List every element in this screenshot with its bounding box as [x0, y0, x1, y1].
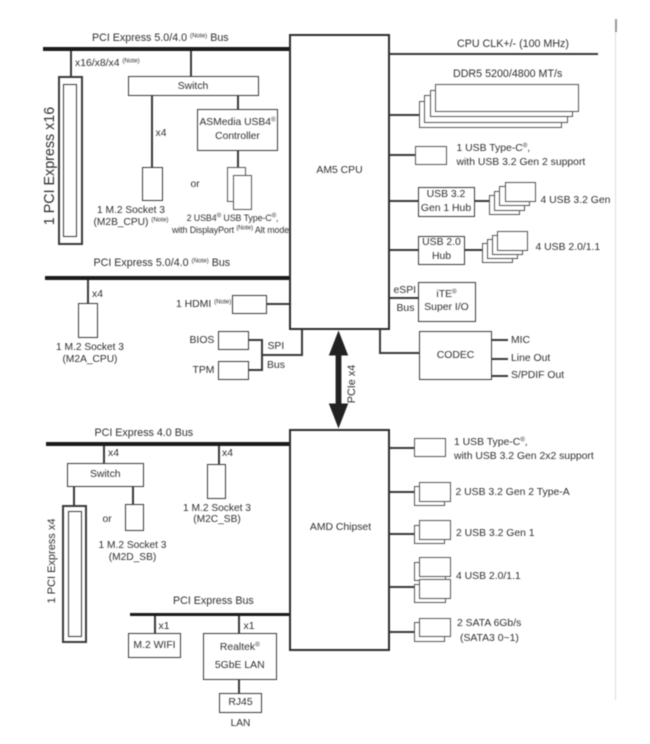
label PCI Express Bus: [173, 596, 254, 608]
caption USB4 alt mode line2: [172, 225, 289, 237]
USB 2.0 port pair B front: [419, 579, 451, 599]
wire HDMI to CPU: [267, 303, 290, 305]
label or (top): [191, 179, 200, 191]
DDR5 DIMM 4: [419, 101, 563, 129]
label LAN: [231, 718, 251, 730]
switch (top): [128, 76, 259, 96]
label eSPI: [394, 285, 417, 297]
wire bus to Realtek LAN: [238, 616, 240, 633]
M.2 socket M2A box: [78, 303, 98, 338]
label PCI Express 5.0/4.0 Bus (second): [94, 258, 231, 270]
USB 3.2 Gen 1 hub box: [418, 187, 475, 217]
PCI Express x16 slot outer: [58, 76, 83, 245]
HDMI port box: [232, 295, 267, 314]
PCI Express x4 slot inner: [68, 511, 82, 637]
label x4 (switch): [108, 448, 119, 460]
M.2 socket M2B box: [142, 167, 163, 201]
label 2 USB 3.2 Gen 2 Type-A: [456, 487, 570, 499]
wire CPU to USB type-C port: [390, 154, 415, 156]
wire bus to M.2 WIFI: [154, 616, 156, 633]
wire CODEC to S/PDIF Out: [492, 375, 508, 377]
iTE super I/O box: [418, 282, 476, 323]
wire CPU to CODEC horizontal: [379, 352, 420, 354]
CODEC box: [419, 331, 492, 381]
USB4 type-C port front: [233, 175, 253, 210]
PCI Express 4.0 bus bar: [46, 442, 289, 446]
ASMedia USB4 controller U-asm: [197, 109, 278, 152]
label PCIe x4 (rotated): [346, 365, 358, 403]
SATA port back: [414, 622, 445, 642]
wire switch to ASMedia controller: [237, 96, 239, 109]
page border dark tick: [615, 19, 617, 32]
caption 2 SATA 6Gb/s (SATA3 0~1): [457, 616, 521, 646]
DDR5 DIMM 2: [430, 90, 574, 118]
switch (bottom): [67, 463, 145, 488]
label CPU CLK+/- (100 MHz): [457, 39, 569, 51]
wire chipset to USB 2.0 ports: [390, 586, 414, 588]
label x4 (M2C): [222, 448, 233, 460]
USB 2.0 port pair A back: [414, 562, 446, 582]
wire chipset to USB 3.2 Gen 2 ports: [390, 491, 414, 493]
BIOS box: [218, 331, 249, 350]
wire switch to M.2 socket M2B: [151, 96, 153, 167]
label 1 PCI Express x4 (rotated): [46, 519, 58, 604]
USB 3.2 Gen 1 port front: [419, 520, 451, 540]
USB 2.0 hub box: [418, 236, 465, 265]
wire CPU to USB 3.2 hub: [390, 200, 418, 202]
label x1 (WIFI): [159, 621, 170, 633]
USB type-C port (CPU): [415, 146, 447, 165]
label x4: [156, 128, 167, 140]
USB type-C port (chipset): [414, 438, 446, 457]
wire CPU to DIMMs: [390, 114, 419, 116]
wire CODEC to Line Out: [492, 358, 508, 360]
wire switch to PCIe x4 slot: [73, 487, 75, 505]
wire CODEC to MIC: [492, 339, 508, 341]
caption 1 M.2 Socket 3 (M2B_CPU): [94, 205, 169, 228]
caption 1 M.2 Socket 3 (M2D_SB): [99, 540, 167, 563]
USB 2.0 port pair B back: [414, 584, 446, 604]
wire bus to PCIe x16 slot: [70, 51, 73, 76]
wire CPU to USB 2.0 hub: [390, 249, 418, 251]
CPU CLK wire: [390, 53, 598, 55]
SPI bus wire vertical to CPU bottom: [301, 330, 303, 356]
label Bus (eSPI): [397, 303, 415, 315]
USB 2.0 port 1: [497, 231, 528, 251]
label 1 HDMI: [176, 299, 231, 311]
TPM box: [218, 361, 249, 380]
Realtek 5GbE LAN box: [203, 633, 278, 680]
caption 2 USB4 USB Type-C with DisplayPort Alt mode: [187, 213, 279, 225]
label 4 USB 2.0/1.1 (bottom): [456, 571, 521, 583]
wire bus to M.2 socket M2C: [218, 446, 220, 464]
AMD chipset box: [289, 429, 390, 652]
SPI bracket vertical: [261, 339, 263, 371]
SATA port front: [419, 618, 451, 638]
USB 3.2 Gen 2 port front: [419, 482, 451, 502]
wire chipset to USB 3.2 Gen 1 ports: [390, 533, 414, 535]
label or (bottom): [103, 514, 112, 526]
caption 1 M.2 Socket 3 (M2A_CPU): [56, 342, 124, 365]
DDR5 DIMM 1: [435, 84, 579, 112]
label Bus (SPI): [267, 360, 285, 372]
PCI Express x16 slot inner: [63, 84, 77, 237]
label MIC: [511, 335, 530, 347]
wire bus to M.2 socket M2A: [87, 280, 89, 304]
label BIOS: [190, 335, 215, 347]
wire chipset to SATA ports: [390, 631, 414, 633]
label AMD Chipset: [289, 522, 392, 534]
PCI Express x4 slot outer: [62, 505, 87, 643]
label 4 USB 2.0/1.1 (top): [536, 242, 601, 254]
USB 2.0 port 2: [492, 235, 523, 255]
USB 2.0 port pair A front: [419, 557, 451, 577]
label PCI Express 5.0/4.0 Bus (top): [92, 33, 229, 45]
USB 3.2 Gen 1 port back: [414, 525, 445, 545]
USB 3.2 port 2: [499, 186, 530, 206]
wire ASMedia to USB4 type-C ports: [237, 151, 239, 167]
USB 3.2 Gen 2 port back: [414, 486, 445, 506]
label 2 USB 3.2 Gen 1: [456, 528, 535, 540]
label x16/x8/x4: [75, 58, 140, 70]
label SPI: [268, 341, 285, 353]
USB 3.2 port 3: [494, 191, 525, 211]
PCI Express bus bar (bottom): [130, 613, 290, 617]
wire chipset to USB type-C port: [390, 447, 414, 449]
wire bus to switch: [190, 51, 193, 76]
wire TPM to SPI bracket: [249, 369, 263, 371]
M.2 socket M2D box: [125, 504, 144, 531]
wire Realtek to RJ45: [238, 680, 240, 693]
caption 1 USB Type-C with USB 3.2 Gen 2x2 support: [454, 436, 594, 465]
USB 3.2 port 1: [505, 182, 536, 202]
wire CPU to CODEC vertical: [379, 330, 381, 354]
PCIe x4 double arrow CPU to chipset: [325, 330, 353, 429]
caption 1 M.2 Socket 3 (M2C_SB): [183, 503, 251, 526]
AM5 CPU box: [289, 34, 390, 330]
USB 2.0 port 3: [487, 239, 518, 259]
USB4 type-C port back: [227, 167, 246, 202]
PCI Express 5.0/4.0 bus bar (top): [43, 47, 289, 51]
DDR5 DIMM 3: [424, 95, 568, 123]
label Line Out: [511, 353, 550, 365]
page border faint line: [615, 28, 616, 700]
USB 2.0 port 4: [482, 243, 513, 263]
SPI bus wire to CPU: [261, 354, 302, 356]
label x4 (M2A): [92, 289, 103, 301]
label 1 PCI Express x16 (rotated): [42, 107, 58, 225]
wire hub to USB 2.0 ports: [465, 249, 482, 251]
wire switch to M.2 socket M2D: [132, 487, 134, 504]
RJ45 box: [219, 693, 262, 713]
label TPM: [193, 365, 215, 377]
wire bus to switch (bottom): [103, 446, 105, 463]
label 4 USB 3.2 Gen: [541, 195, 611, 207]
label AM5 CPU: [289, 165, 390, 177]
label PCI Express 4.0 Bus: [95, 428, 194, 440]
M.2 WIFI box: [128, 633, 181, 658]
USB 3.2 port 4: [489, 195, 520, 215]
wire CPU to iTE super I/O: [390, 297, 418, 299]
label x1 (LAN): [244, 621, 255, 633]
label DDR5 5200/4800 MT/s: [453, 69, 562, 81]
wire BIOS to SPI bracket: [249, 339, 263, 341]
M.2 socket M2C box: [207, 464, 226, 499]
wire hub to USB 3.2 ports: [475, 200, 490, 202]
PCI Express 5.0/4.0 bus bar (second): [45, 276, 289, 280]
caption 1 USB Type-C with USB 3.2 Gen 2 support: [457, 142, 586, 171]
label S/PDIF Out: [511, 370, 564, 382]
